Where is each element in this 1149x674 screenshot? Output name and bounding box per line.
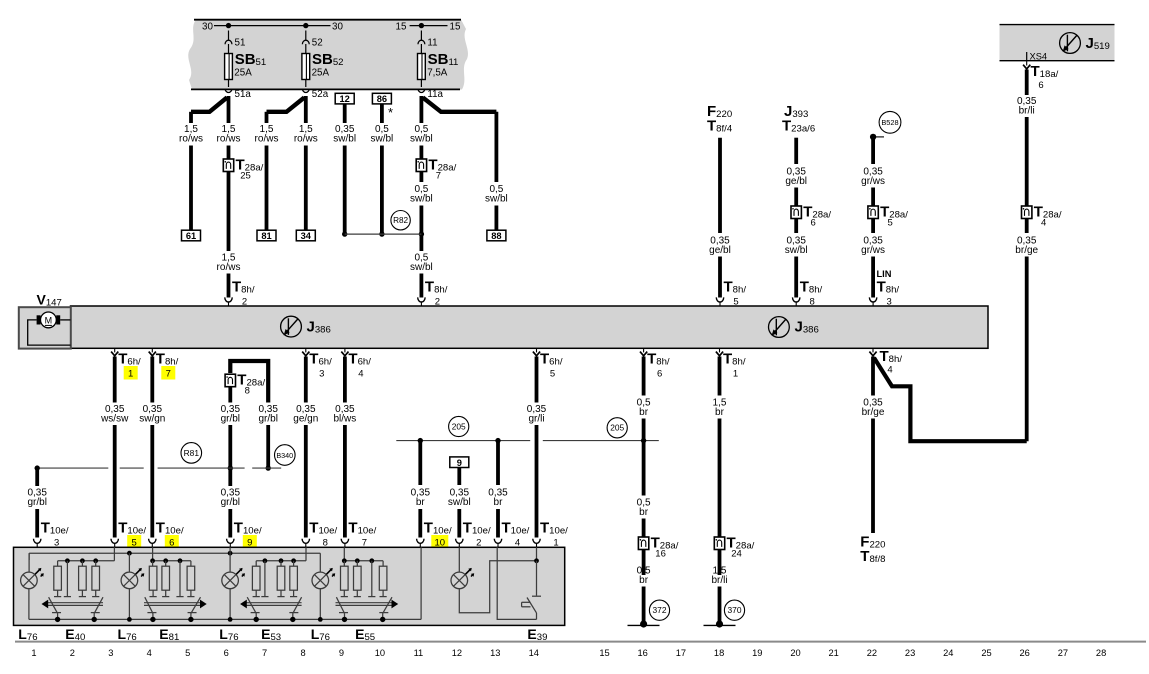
svg-text:br/ge: br/ge [862,407,885,418]
node: fuse SB51 to 30 bus [226,23,231,28]
E40 lever left [49,597,58,613]
svg-text:11: 11 [427,38,437,49]
node: 86 wire to splice line [379,231,384,236]
svg-text:15: 15 [599,648,609,658]
plus connection 9 [450,457,469,468]
svg-text:LIN: LIN [877,269,892,279]
node: T10e/3 drop on link line [35,465,40,470]
wire 0,5 sw/bl from 86 [380,104,384,123]
wire 0,35 sw/bl from 9 to T10e/2 [457,468,461,486]
svg-text:7: 7 [262,648,267,658]
svg-text:9: 9 [457,458,462,468]
internal connection symbol K in J386 (right) [769,317,790,338]
E55 dimmer bar [336,602,393,604]
ground terminal 34 [296,230,315,241]
svg-text:br/li: br/li [711,575,727,586]
svg-text:5: 5 [550,369,555,380]
wire 0,35 ge/gn [304,357,308,403]
svg-text:ws/sw: ws/sw [100,414,129,425]
wire from SB52 52a, branch to terminal 81 [267,98,305,112]
svg-text:sw/bl: sw/bl [448,497,471,508]
svg-text:19: 19 [752,648,762,658]
svg-text:23: 23 [905,648,915,658]
ground terminal 88 [487,230,506,241]
fuse SB52 25A [305,31,307,41]
E81 dimmer bar [144,602,201,604]
wire from SB52 52a main, 1,5 ro/ws to 34 [304,96,308,123]
E40 dimmer bar [48,602,103,604]
svg-text:7,5A: 7,5A [427,68,448,79]
switch illumination band [14,547,565,625]
jumper loop at T28a/8 [230,361,268,403]
svg-text:51: 51 [235,38,246,49]
svg-text:7: 7 [166,369,171,380]
svg-text:XS4: XS4 [1030,52,1048,62]
pin T10e/7 into lamp band [341,539,348,544]
svg-text:gr/bl: gr/bl [221,497,240,508]
svg-text:15: 15 [450,22,461,33]
connector T28a/8 [225,374,235,387]
svg-text:sw/bl: sw/bl [410,262,433,273]
connector T28a/25 [223,159,233,172]
wire 1,5 br/li to ground splice 370 [718,550,722,576]
wire 0,35 gr/bl to T10e/3 [35,470,39,487]
svg-text:25: 25 [981,648,991,658]
svg-text:gr/bl: gr/bl [258,414,277,425]
svg-text:gr/ws: gr/ws [861,245,885,256]
wire 0,35 br/li from J519 [1025,70,1029,96]
wire 1,5 ro/ws to J386 T8h/2 [227,172,231,252]
svg-text:3: 3 [108,648,113,658]
bottom rail [29,618,421,620]
pin T8h/5 into J386 [716,297,723,302]
pin T10e/4 into lamp band [494,539,501,544]
svg-text:4: 4 [358,369,363,380]
svg-text:24: 24 [731,549,742,560]
pin T6h/1 out of J386 [114,348,116,352]
svg-text:3: 3 [319,369,324,380]
terminal 30 bus [214,25,331,27]
svg-text:*: * [388,105,393,120]
svg-text:5: 5 [185,648,190,658]
svg-text:ro/ws: ro/ws [179,134,203,145]
svg-text:gr/li: gr/li [528,414,544,425]
svg-text:2: 2 [70,648,75,658]
svg-text:34: 34 [301,231,312,241]
svg-text:4: 4 [887,365,892,376]
node: T10e/10 wire on 205 line [418,438,423,443]
svg-text:ge/bl: ge/bl [785,176,807,187]
E81 illumination: bulbs [150,558,155,563]
wire 1 into E39 switch [536,547,538,561]
svg-text:27: 27 [1058,648,1068,658]
E40 lever right [94,597,103,613]
svg-text:6: 6 [811,218,816,229]
svg-text:gr/ws: gr/ws [861,176,885,187]
node: T8h/6 wire on 205 line [641,438,646,443]
svg-text:7: 7 [436,171,441,182]
svg-text:16: 16 [655,549,666,560]
svg-text:15: 15 [396,22,407,33]
svg-text:br: br [494,497,504,508]
node: lamp L76 (3) on rails [228,551,233,556]
svg-text:372: 372 [653,605,667,615]
connector T28a/24 [714,537,724,550]
ground terminal 61 [182,230,201,241]
node: T10e/4 wire on 205 line [495,438,500,443]
wire 4 segment in band [497,547,536,619]
wire 0,35 br/ge from T28a/4 down and over to T8h/4 [1025,219,1029,234]
svg-text:gr/bl: gr/bl [221,414,240,425]
ground splice point [628,624,660,626]
svg-text:30: 30 [332,22,343,33]
wire from SB11 11a, branch to terminal 88 [423,98,497,112]
pin T6h/3 out of J386 [305,348,307,352]
svg-text:16: 16 [638,648,648,658]
wire 0,35 ge/bl from F220 to J386 T8h/5 [718,138,722,233]
svg-text:14: 14 [529,648,539,658]
svg-text:26: 26 [1020,648,1030,658]
ground terminal 81 [257,230,276,241]
svg-text:52a: 52a [312,89,329,100]
wire 0,5 br upper [642,357,646,396]
pin T10e/3 at lamp band [34,539,41,544]
node: left leg on R81 line [228,465,233,470]
pin T6h/4 out of J386 [344,348,346,352]
svg-text:sw/gn: sw/gn [139,414,165,425]
E39 wiring [459,561,536,613]
svg-text:11: 11 [414,648,424,658]
svg-text:20: 20 [790,648,800,658]
svg-text:25A: 25A [234,68,252,79]
pin T8h/7 out of J386 [151,348,153,352]
svg-text:ro/ws: ro/ws [255,134,279,145]
wire 0,35 ge/bl from J393 [794,138,798,164]
svg-text:25: 25 [240,171,251,182]
E40 instrument illumination: bulbs [57,561,59,566]
pin T8h/2 into J386 [225,297,232,302]
svg-text:gr/bl: gr/bl [27,497,46,508]
wire 0,35 br/ge to F220 T8f/8 [871,357,875,396]
svg-text:B340: B340 [276,451,293,460]
svg-text:52: 52 [312,38,323,49]
svg-text:6: 6 [224,648,229,658]
svg-text:1: 1 [733,369,738,380]
svg-text:br: br [639,507,649,518]
svg-text:10: 10 [375,648,385,658]
lamp L76 (4) [319,553,321,572]
lamp L76 (2) [128,553,130,572]
wire 9 into lamp rail [229,547,231,553]
lamp L76 (1) [28,553,30,572]
svg-text:86: 86 [377,94,387,104]
pin T8h/6 out of J386 [643,348,645,352]
splice line 12/86/11a [345,233,422,235]
fuse box band (battery/ignition supply) [188,20,468,90]
svg-text:br/li: br/li [1019,106,1035,117]
svg-text:30: 30 [202,22,213,33]
wire 7 into E55 rail [343,547,345,561]
lamp rail [28,553,30,560]
E53 lever right [293,597,302,613]
node: 11a wire on splice line [419,231,424,236]
svg-text:sw/bl: sw/bl [333,134,356,145]
wire 0,35 bl/ws [343,357,347,403]
wire 8 into E53 rail [305,547,307,561]
svg-text:11a: 11a [427,89,443,100]
svg-text:ro/ws: ro/ws [294,134,318,145]
wire 0,35 ws/sw [113,357,117,403]
svg-text:1: 1 [128,369,133,380]
control unit J519 box [1000,24,1115,61]
E53 dimmer bar [246,602,301,604]
svg-text:17: 17 [676,648,686,658]
svg-text:ge/gn: ge/gn [293,414,318,425]
wire 6 into E81 rail [152,547,154,561]
wire 0,35 br to T10e/4 [496,442,500,485]
current track ruler [15,641,1146,643]
terminal 15 bus [410,25,448,27]
pin T10e/5 into lamp band [111,539,118,544]
connection B340 [275,445,296,466]
wire 0,35 gr/ws LIN to J386 T8h/3 [871,219,875,234]
E39 switch actuator [522,601,531,603]
svg-text:sw/bl: sw/bl [410,134,433,145]
wire loop inside V147 [28,320,71,345]
wire 0,35 sw/bl from 12 [343,104,347,123]
splice designator 372 [649,600,669,620]
svg-text:sw/bl: sw/bl [485,194,508,205]
wire from SB51 51a main, 1,5 ro/ws [227,96,231,123]
svg-text:br: br [416,497,426,508]
wire 0,35 gr/li [535,357,539,403]
svg-text:28: 28 [1096,648,1106,658]
motor symbol M in V147 [41,312,57,328]
ground splice point [704,624,736,626]
plus connection 86 [372,93,391,104]
svg-text:ro/ws: ro/ws [217,262,241,273]
internal connection symbol K in J386 (left) [281,316,302,337]
pin T8h/4 out of J386 [872,348,874,352]
connector T28a/7 [416,159,426,172]
E81 lever right [191,597,201,613]
svg-text:6: 6 [657,369,662,380]
pin T10e/6 into lamp band [149,539,156,544]
svg-text:21: 21 [829,648,839,658]
pin T8h/2 into J386 (right) [418,297,425,302]
pin T18a/6 out of J519 [1026,61,1028,65]
wire 1,5 br upper [718,357,722,396]
node: 12 wire to splice line [342,231,347,236]
svg-text:51a: 51a [235,89,252,100]
svg-text:M: M [45,315,53,325]
svg-text:18: 18 [714,648,724,658]
connector T28a/4 [1022,206,1032,219]
link line to R81/B340 [37,467,108,469]
internal connection symbol K in J519 [1060,33,1081,54]
onboard supply control unit J386 band [71,306,989,348]
svg-text:1: 1 [31,648,36,658]
E55 illumination: bulbs [342,558,347,563]
node: right leg end on R81 line [266,465,271,470]
node: fuse SB11 to 15 bus [419,23,424,28]
splice designator R81 [181,443,202,464]
splice designator 205 (right) [607,418,627,438]
svg-text:br: br [715,407,725,418]
svg-text:sw/bl: sw/bl [785,245,808,256]
wiper motor V147 box [19,307,71,348]
E55 lever left [336,597,344,613]
pin T6h/5 out of J386 [536,348,538,352]
splice designator 205 (left) [449,416,469,436]
svg-text:br: br [639,407,649,418]
fuse SB11 7.5A [420,31,422,41]
svg-text:sw/bl: sw/bl [410,194,433,205]
wire 0,35 sw/bl to J386 T8h/8 [794,219,798,234]
svg-text:6: 6 [1038,80,1043,91]
wire from SB51 51a, branch to terminal 61 [191,98,227,112]
svg-text:12: 12 [340,94,350,104]
wire 0,5 br lower [642,442,646,496]
connector T28a/6 [791,206,801,219]
svg-text:61: 61 [186,231,196,241]
svg-text:8: 8 [245,386,250,397]
wire 10 to bottom rail [420,547,422,619]
splice designator R82 [391,211,410,230]
pin T10e/9 into lamp band [227,539,234,544]
pin T8h/1 out of J386 [719,348,721,352]
svg-text:R82: R82 [393,216,408,225]
svg-text:88: 88 [491,231,501,241]
connection B528 [879,111,901,133]
splice designator 370 [724,600,744,620]
E53 illumination: bulbs [255,561,257,566]
wire 0,35 gr/bl (left leg) [228,387,232,403]
pin T10e/1 into lamp band [533,539,540,544]
pin T10e/10 into lamp band [417,539,424,544]
connector XS4 [1026,52,1028,61]
connector T28a/5 [868,206,878,219]
node: lamp L76 (2) on rails [127,551,132,556]
svg-text:sw/bl: sw/bl [371,134,394,145]
wire 0,5 br to ground splice 372 [642,550,646,576]
svg-text:4: 4 [1041,218,1046,229]
lamp L76 (E39 area) [458,547,460,572]
svg-text:R81: R81 [184,448,200,458]
svg-text:bl/ws: bl/ws [334,414,357,425]
link line 205 [396,440,530,442]
wire 5 into E40 rail [113,547,115,561]
wire 0,35 gr/ws from B528 [871,137,875,164]
wire 1,5 ro/ws down to 61 [189,146,193,232]
svg-text:ge/bl: ge/bl [709,245,731,256]
E55 lever right [383,597,392,613]
pin T8h/8 into J386 [793,297,800,302]
svg-text:205: 205 [452,421,466,431]
svg-text:br/ge: br/ge [1015,245,1038,256]
svg-text:8: 8 [301,648,306,658]
connector T28a/16 [638,537,648,550]
wire 0,35 br to T10e/10 [418,442,422,485]
E39 switch contact [536,561,538,596]
fuse SB51 25A [228,31,230,41]
svg-text:5: 5 [887,218,892,229]
svg-text:370: 370 [728,605,742,615]
svg-text:25A: 25A [312,68,330,79]
svg-text:B528: B528 [881,118,898,127]
svg-text:9: 9 [339,648,344,658]
svg-text:13: 13 [490,648,500,658]
svg-text:81: 81 [261,231,271,241]
node: B528 wire start [870,134,876,140]
svg-text:22: 22 [867,648,877,658]
svg-text:12: 12 [452,648,462,658]
wire from SB11 11a main, 0,5 sw/bl [419,96,423,123]
E81 lever left [145,597,153,613]
E53 lever left [247,597,256,613]
pin T10e/2 into lamp band [456,539,463,544]
svg-text:24: 24 [943,648,953,658]
svg-text:205: 205 [610,423,624,433]
wire 0,35 sw/gn [150,357,154,403]
svg-text:ro/ws: ro/ws [217,134,241,145]
lamp L76 (3) [229,553,231,572]
plus connection 12 [335,93,354,104]
pin T10e/8 into lamp band [302,539,309,544]
wire 0,5 sw/bl to J386 T8h/2 (right) [419,236,423,251]
svg-text:br: br [639,575,649,586]
node: fuse SB52 to 30 bus [303,23,308,28]
svg-text:4: 4 [147,648,152,658]
pin T8h/3 into J386 [869,297,876,302]
